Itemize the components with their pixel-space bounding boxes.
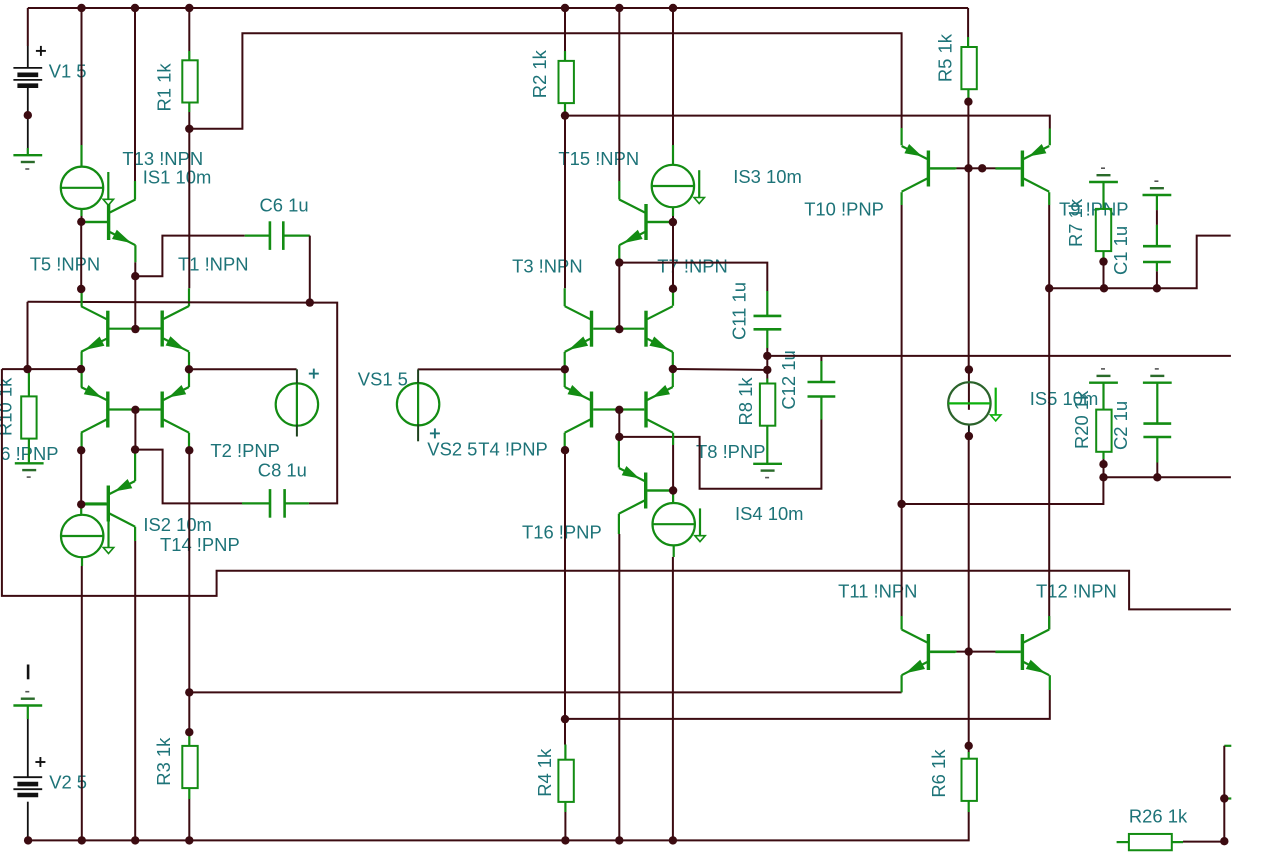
wire T4C down bbox=[564, 450, 566, 719]
C1 top pin bbox=[1156, 225, 1158, 246]
wire T15em to base node2 bbox=[618, 263, 620, 330]
wire top rail to IS3 bbox=[672, 8, 674, 145]
wire T15em to C11 bbox=[619, 263, 767, 291]
T9 emitter stub bbox=[1049, 129, 1051, 146]
resistor R5 bbox=[961, 47, 976, 89]
wire V+ top rail bbox=[28, 7, 968, 9]
junction R20 bottom bbox=[1099, 460, 1107, 468]
junction R26 right bbox=[1220, 837, 1228, 845]
junction top rail T15 bbox=[615, 4, 623, 12]
T10 base pin bbox=[930, 167, 956, 169]
capacitor C8 bbox=[270, 489, 285, 518]
T9 collector stub bbox=[1048, 192, 1050, 205]
C2 bottom pin bbox=[1156, 437, 1158, 463]
junction rail R3 bbox=[185, 836, 193, 844]
IS1 bottom pin bbox=[80, 209, 82, 216]
wire out2 to T12 emitter bbox=[565, 690, 1050, 719]
wire T6C to T14 base bbox=[80, 450, 82, 504]
capacitor C12 bbox=[808, 382, 836, 397]
junction top rail T13 bbox=[131, 4, 139, 12]
C6 right pin bbox=[283, 235, 310, 237]
svg-text:T14 !PNP: T14 !PNP bbox=[160, 534, 240, 555]
wire T13em to C6 bbox=[135, 236, 244, 277]
current source IS3 bbox=[652, 165, 705, 207]
R5 bottom pin bbox=[967, 89, 969, 98]
transistor T3 bbox=[565, 306, 619, 352]
wire T9 base bbox=[982, 167, 995, 169]
T10 emitter stub bbox=[900, 128, 902, 145]
plus VS2 bbox=[430, 428, 440, 438]
wire R5 to bases bbox=[967, 102, 969, 169]
junction IS1 T13 base bbox=[77, 218, 85, 226]
wire C1 to out2 bbox=[1156, 271, 1158, 288]
wire T2C down bbox=[188, 450, 190, 692]
junction T13 emitter bbox=[131, 272, 139, 280]
R2 top pin bbox=[564, 51, 566, 61]
transistor T10 bbox=[902, 144, 956, 192]
wire T15 emitter bbox=[618, 259, 620, 263]
R6 bottom pin bbox=[968, 801, 970, 812]
svg-text:C12 1u: C12 1u bbox=[778, 350, 799, 409]
junction top rail IS3 bbox=[669, 4, 677, 12]
svg-text:VS2 5: VS2 5 bbox=[427, 439, 477, 460]
wire top rail to R2 bbox=[564, 8, 566, 51]
IS3 top pin bbox=[672, 145, 674, 165]
T4 collector stub bbox=[564, 433, 566, 451]
junction rail IS4 bbox=[669, 836, 677, 844]
T4 emitter stub bbox=[564, 369, 566, 387]
battery V2 bbox=[13, 777, 42, 795]
IS3 bottom pin bbox=[672, 207, 674, 216]
junction IS3 T15 base bbox=[669, 218, 677, 226]
svg-text:T7 !NPN: T7 !NPN bbox=[657, 256, 728, 277]
resistor R7 bbox=[1096, 209, 1111, 251]
junction R2 bottom bbox=[561, 111, 569, 119]
resistor R20 bbox=[1096, 410, 1111, 452]
transistor T5 bbox=[81, 306, 135, 352]
plus V1 bbox=[36, 46, 46, 56]
wire out node to T11C bbox=[901, 504, 903, 616]
current source IS1 bbox=[61, 167, 114, 209]
pin stub right top bbox=[1224, 745, 1231, 747]
plus VS1 bbox=[309, 369, 319, 379]
svg-text:T10 !PNP: T10 !PNP bbox=[804, 199, 884, 220]
transistor T1 bbox=[135, 306, 189, 352]
T12 base pin bbox=[996, 650, 1021, 652]
current source IS4 bbox=[653, 503, 706, 545]
pin stub right mid bbox=[1224, 797, 1231, 799]
junction T10 base bbox=[964, 164, 972, 172]
battery V2 pin bottom bbox=[27, 802, 29, 841]
wire out2 to R7C1 bbox=[1049, 236, 1231, 289]
V2 minus mark bbox=[27, 665, 30, 680]
wire T9C to out2 node bbox=[1048, 205, 1050, 288]
junction R5 bottom bbox=[964, 98, 972, 106]
T16 emitter stub bbox=[618, 437, 620, 468]
wire T10 base bbox=[957, 167, 969, 169]
T13 collector stub bbox=[134, 181, 136, 200]
wire out to R20 bbox=[902, 477, 1104, 504]
T15 emitter stub bbox=[618, 245, 620, 258]
resistor R3 bbox=[182, 746, 197, 788]
junction T2 collector bbox=[185, 446, 193, 454]
transistor T13 bbox=[82, 200, 136, 246]
junction V1 ground bbox=[24, 111, 32, 119]
T11 collector stub bbox=[900, 616, 902, 630]
transistor T16 bbox=[619, 466, 673, 514]
wire R4 node bbox=[564, 719, 566, 744]
svg-text:C2 1u: C2 1u bbox=[1110, 401, 1131, 450]
transistor T7 bbox=[619, 306, 673, 352]
T13 emitter stub bbox=[134, 245, 136, 262]
wire V+ to R5 bbox=[967, 8, 969, 37]
svg-text:IS2 10m: IS2 10m bbox=[143, 514, 212, 535]
R1 bottom pin bbox=[188, 103, 190, 112]
wire T14 collector to Vrail bbox=[134, 541, 136, 840]
ground G4 inverted bbox=[13, 692, 42, 706]
R7 bottom pin bbox=[1102, 251, 1104, 258]
junction base2 node 2 bbox=[615, 406, 623, 414]
junction C2 tap bbox=[1153, 473, 1161, 481]
T5 emitter stub bbox=[80, 352, 82, 369]
R7 top pin bbox=[1102, 209, 1104, 210]
transistor T8 bbox=[619, 385, 673, 433]
resistor R26 bbox=[1129, 834, 1172, 850]
junction C11 B bbox=[763, 366, 771, 374]
T8 emitter stub bbox=[672, 369, 674, 387]
svg-text:T8 !PNP: T8 !PNP bbox=[696, 441, 766, 462]
T10 collector stub bbox=[900, 192, 902, 205]
junction R3 top bbox=[185, 728, 193, 736]
junction top rail R1 bbox=[185, 4, 193, 12]
IS4 bottom pin bbox=[673, 545, 675, 557]
wire top rail to T13 collector bbox=[134, 8, 136, 181]
wire C12 to T16 node bbox=[619, 420, 821, 489]
ground G7 inverted bbox=[1089, 369, 1118, 383]
svg-text:T16 !PNP: T16 !PNP bbox=[522, 522, 602, 543]
C8 right pin bbox=[285, 502, 309, 504]
junction R6 top bbox=[965, 742, 973, 750]
T7 collector stub bbox=[672, 289, 674, 306]
transistor T4 bbox=[565, 385, 619, 433]
junction R7 pin bbox=[1099, 257, 1107, 265]
R4 top pin bbox=[564, 745, 566, 760]
junction T16 node bbox=[615, 433, 623, 441]
junction rail R4 bbox=[561, 836, 569, 844]
T1 emitter stub bbox=[188, 352, 190, 369]
svg-text:R1 1k: R1 1k bbox=[154, 63, 175, 112]
R8 bottom pin bbox=[766, 426, 768, 448]
T13 base pin bbox=[82, 221, 108, 223]
junction R1 bottom bbox=[185, 125, 193, 133]
C12 top pin bbox=[820, 361, 822, 382]
wire top rail to V1 bbox=[27, 8, 29, 46]
junction T6 collector bbox=[77, 446, 85, 454]
transistor T11 bbox=[902, 630, 956, 676]
T5 collector stub bbox=[80, 289, 82, 306]
junction T1T2 emitters bbox=[185, 365, 193, 373]
junction out node 1 bbox=[897, 500, 905, 508]
ground G3 bbox=[753, 464, 782, 478]
junction T7 collector bbox=[669, 285, 677, 293]
svg-text:R8 1k: R8 1k bbox=[735, 377, 756, 426]
junction C11 A bbox=[763, 352, 771, 360]
junction T15 emitter bbox=[615, 258, 623, 266]
T12 emitter stub bbox=[1049, 675, 1051, 690]
T9 base pin bbox=[996, 167, 1021, 169]
R2 bottom pin bbox=[564, 103, 566, 112]
wire R7 to out2 bbox=[1103, 262, 1105, 289]
C11 top pin bbox=[766, 291, 768, 316]
wire IS1 to T13 base bbox=[81, 216, 83, 222]
IS5 bottom pin bbox=[968, 424, 970, 437]
wire R26 column bbox=[1223, 746, 1225, 841]
junction R10 top bbox=[23, 365, 31, 373]
R6 top pin bbox=[968, 752, 970, 759]
wire C11 node bbox=[766, 348, 768, 356]
IS2 bottom pin bbox=[81, 557, 83, 566]
svg-text:R6 1k: R6 1k bbox=[928, 749, 949, 798]
wire R3 to Vrail bbox=[188, 799, 190, 840]
plus V2 bbox=[35, 757, 45, 767]
wire C11 to C12 rail bbox=[767, 355, 1231, 357]
junction rail IS2 bbox=[78, 836, 86, 844]
wire R1 bottom bbox=[188, 112, 190, 129]
T3 collector stub bbox=[564, 288, 566, 306]
wire T5 collector node bbox=[80, 222, 82, 289]
junction base node 1 bbox=[131, 325, 139, 333]
junction T14 emitter bbox=[131, 445, 139, 453]
junction out2 R7 bbox=[1100, 284, 1108, 292]
voltage source VS1 bbox=[276, 369, 318, 436]
IS2 top pin bbox=[80, 504, 82, 514]
wire R5 bottom bbox=[967, 98, 969, 102]
transistor T15 bbox=[619, 200, 673, 246]
junction out2 C1 bbox=[1153, 284, 1161, 292]
wire R20 pin node bbox=[1103, 459, 1105, 464]
svg-text:C8 1u: C8 1u bbox=[258, 460, 307, 481]
T12 collector stub bbox=[1048, 616, 1050, 630]
svg-text:R3 1k: R3 1k bbox=[153, 737, 174, 786]
transistor T6 bbox=[81, 385, 135, 433]
junction T4 collector bbox=[561, 446, 569, 454]
junction base2 node 1 bbox=[131, 406, 139, 414]
transistor T14 bbox=[81, 479, 135, 527]
T1 collector stub bbox=[188, 288, 190, 306]
svg-text:T12 !NPN: T12 !NPN bbox=[1036, 581, 1117, 602]
junction top rail IS1 bbox=[77, 4, 85, 12]
junction R4 wire bbox=[561, 715, 569, 723]
T14 collector stub bbox=[134, 527, 136, 541]
svg-text:C6 1u: C6 1u bbox=[260, 195, 309, 216]
wire R26 to column bbox=[1183, 841, 1224, 843]
wire VS2 to T3T4 emitters bbox=[418, 368, 565, 370]
junction T11T12 base bbox=[965, 647, 973, 655]
svg-text:R4 1k: R4 1k bbox=[534, 748, 555, 797]
junction T3T4 emitters bbox=[561, 365, 569, 373]
svg-text:T4 !PNP: T4 !PNP bbox=[478, 439, 548, 460]
junction T14 base bbox=[77, 500, 85, 508]
R3 top pin bbox=[188, 732, 190, 746]
ground G7 stem bbox=[1102, 383, 1104, 410]
svg-text:R26 1k: R26 1k bbox=[1129, 806, 1188, 827]
wire R20 to tap bbox=[1103, 464, 1105, 477]
R10 top pin bbox=[28, 369, 30, 396]
junction T5 collector bbox=[77, 285, 85, 293]
wire T7T8 emitters to R8 bbox=[673, 368, 767, 371]
wire emitter-cap rail bbox=[28, 301, 310, 304]
battery V1 bbox=[13, 68, 42, 86]
ground G6 stem bbox=[1156, 195, 1158, 210]
current source IS2 bbox=[61, 515, 114, 557]
ground G1 stem bbox=[27, 148, 29, 155]
svg-text:T15 !NPN: T15 !NPN bbox=[558, 148, 639, 169]
C12 bottom pin bbox=[820, 397, 822, 420]
junction C6 rail bbox=[306, 298, 314, 306]
wire IS5 to T11T12 bases bbox=[968, 436, 970, 651]
wire dots AB bbox=[766, 356, 768, 370]
wire IS2 to Vrail bbox=[81, 566, 83, 840]
ground G4 stem bbox=[27, 706, 29, 720]
ground G8 stem bbox=[1156, 383, 1158, 401]
wire R4 to Vrail bbox=[564, 812, 566, 840]
wire IS3 to T15 base bbox=[672, 216, 674, 222]
ground G6 inverted bbox=[1143, 181, 1172, 195]
C8 left pin bbox=[242, 502, 270, 504]
capacitor C11 bbox=[754, 316, 782, 329]
wire R1 to T1 collector bbox=[188, 129, 190, 288]
svg-text:T2 !PNP: T2 !PNP bbox=[210, 440, 280, 461]
wire R6 top bbox=[968, 746, 970, 752]
svg-text:R20 1k: R20 1k bbox=[1071, 390, 1092, 449]
svg-text:IS4 10m: IS4 10m bbox=[735, 503, 804, 524]
T15 base pin bbox=[648, 221, 673, 223]
T14 base pin bbox=[81, 503, 107, 505]
R3 bottom pin bbox=[188, 788, 190, 799]
wire bases2 to R6 bbox=[968, 652, 970, 746]
T16 collector stub bbox=[618, 514, 620, 534]
wire R2 to T3 collector bbox=[564, 116, 566, 289]
R20 bottom pin bbox=[1102, 452, 1104, 459]
wire C1 top bbox=[1156, 210, 1158, 225]
junction rail V2 bbox=[24, 836, 32, 844]
resistor R10 bbox=[21, 396, 36, 438]
ground G5 inverted bbox=[1089, 168, 1118, 182]
wire top rail to IS1 bbox=[81, 8, 83, 145]
T6 collector stub bbox=[80, 433, 82, 451]
wire left edge down bbox=[2, 369, 1231, 609]
svg-text:IS1 10m: IS1 10m bbox=[143, 167, 212, 188]
junction R26 stub bbox=[1220, 794, 1228, 802]
wire top rail to T15 collector bbox=[618, 8, 620, 181]
capacitor C1 bbox=[1143, 246, 1171, 262]
ground G1 bbox=[13, 155, 42, 169]
wire T1T2 emitters to VS1 bbox=[189, 368, 297, 370]
svg-text:R2 1k: R2 1k bbox=[529, 49, 550, 98]
wire T11T12 base node bbox=[957, 651, 996, 653]
resistor R8 bbox=[760, 384, 775, 426]
wire C2 to tap bbox=[1156, 463, 1158, 478]
T11 emitter stub bbox=[900, 675, 902, 692]
wire R8 top bbox=[766, 370, 768, 379]
wire IS3node to T7 collector bbox=[672, 222, 674, 289]
ground G5 stem bbox=[1102, 182, 1104, 209]
svg-text:R5 1k: R5 1k bbox=[935, 33, 956, 82]
svg-text:C11 1u: C11 1u bbox=[729, 282, 750, 340]
junction T7T8 emitters bbox=[669, 365, 677, 373]
wire R7 pin node bbox=[1103, 258, 1105, 262]
T16 base pin bbox=[647, 489, 673, 491]
junction T9 base bbox=[978, 164, 986, 172]
wire V1 to ground bbox=[27, 115, 29, 148]
wire T16C to Vrail bbox=[618, 534, 620, 840]
junction R20 tap bbox=[1099, 473, 1107, 481]
svg-text:T5 !NPN: T5 !NPN bbox=[30, 254, 101, 275]
transistor T12 bbox=[995, 630, 1049, 676]
junction IS5 bottom bbox=[965, 432, 973, 440]
capacitor C2 bbox=[1143, 424, 1171, 437]
C1 bottom pin bbox=[1156, 262, 1158, 271]
wire R10 node bbox=[2, 368, 81, 370]
svg-text:R7 1k: R7 1k bbox=[1065, 198, 1086, 247]
junction rail T16 bbox=[615, 836, 623, 844]
C2 top pin bbox=[1156, 401, 1158, 424]
IS1 top pin bbox=[80, 145, 82, 167]
wire base2 node down bbox=[134, 410, 136, 450]
T2 collector stub bbox=[188, 433, 190, 451]
junction top rail R2 bbox=[561, 4, 569, 12]
wire top rail to R1 bbox=[188, 8, 190, 51]
battery V1 pin top bbox=[27, 46, 29, 68]
junction IS5 top bbox=[965, 365, 973, 373]
wire out2 node to T12C bbox=[1048, 288, 1050, 629]
T2 emitter stub bbox=[188, 369, 190, 387]
wire base pair bbox=[969, 167, 983, 169]
wire R2 to T9 emitter bbox=[565, 116, 1050, 129]
C6 left pin bbox=[245, 235, 270, 237]
wire out1 tap rail bbox=[1104, 476, 1231, 478]
current source IS5 bbox=[948, 382, 1001, 424]
wire C8 to base node bbox=[135, 450, 242, 504]
junction T16 base IS4 bbox=[669, 486, 677, 494]
T8 collector stub bbox=[672, 433, 674, 445]
T3 emitter stub bbox=[564, 352, 566, 369]
resistor R1 bbox=[182, 60, 197, 102]
svg-text:T11 !NPN: T11 !NPN bbox=[838, 581, 917, 602]
R8 top pin bbox=[766, 379, 768, 384]
R4 bottom pin bbox=[564, 802, 566, 812]
C11 bottom pin bbox=[766, 329, 768, 348]
junction rail T14 bbox=[131, 836, 139, 844]
T11 base pin bbox=[930, 650, 956, 652]
junction out1 wire bbox=[185, 688, 193, 696]
wire IS5 pin overdraw bbox=[968, 370, 970, 410]
wire R6 to bottom rail bbox=[28, 812, 969, 840]
wire T2C to R3 bbox=[188, 692, 190, 732]
wire T10C to out node bbox=[901, 205, 903, 504]
transistor T9 bbox=[995, 144, 1049, 192]
wire bases to IS5 bbox=[968, 168, 970, 369]
ground G3 stem bbox=[766, 448, 768, 464]
wire C6C8 node bbox=[309, 303, 337, 504]
R26 right pin bbox=[1172, 841, 1183, 843]
junction T9 collector out bbox=[1045, 284, 1053, 292]
R10 bottom pin bbox=[28, 439, 30, 464]
IS4 top pin bbox=[672, 491, 674, 504]
R5 top pin bbox=[967, 37, 969, 47]
T15 collector stub bbox=[618, 181, 620, 200]
capacitor C6 bbox=[270, 221, 283, 250]
